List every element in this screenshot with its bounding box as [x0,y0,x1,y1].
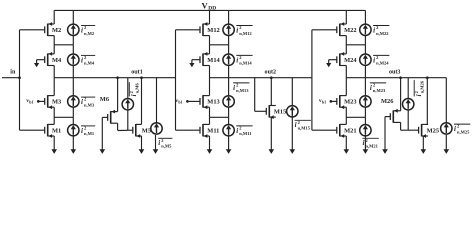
ground at M26 gate [382,117,390,154]
ground under i2n,M11 chain [226,135,232,154]
svg-text:i: i [81,56,83,64]
wire: M23 source to node B3 [345,107,347,117]
svg-text:i: i [295,121,297,129]
svg-text:i: i [233,84,235,92]
ground at M11 source [207,136,213,154]
noise source i2n,M14 [223,45,234,78]
transistor M2 (PMOS) [45,22,62,36]
svg-text:out3: out3 [389,70,401,76]
svg-text:i: i [373,26,375,34]
wire: M6 source to M5 gate [118,123,133,130]
svg-text:M1: M1 [52,128,61,135]
noise source i2n,M1 [68,117,79,136]
label i2n,M15 [295,120,311,131]
node B1 tie line [54,116,73,118]
wire: out1 to M6 drain [116,76,119,111]
label i2n,M6 (rotated) [129,82,140,96]
svg-text:i: i [370,84,372,92]
node B2 tie line [210,116,229,118]
label i2n,M12 [236,25,252,36]
noise source i2n,M24 [360,45,371,78]
wire: stage1 input rail (gates of M2 and M1) [20,30,45,130]
transistor M1 (NMOS) [45,124,62,138]
svg-text:M25: M25 [427,128,439,135]
label i2n,M11 [236,126,252,137]
wire: M24 drain to out3 [345,66,347,96]
svg-text:n,M21: n,M21 [366,144,379,149]
transistor M22 (PMOS) [337,22,357,36]
label M6 [100,96,110,103]
label i2n,M25 [454,124,470,135]
label i2n,M3 [81,97,95,108]
transistor M23 (NMOS cascode) [337,95,357,109]
svg-text:n,M22: n,M22 [376,31,389,36]
svg-text:M3: M3 [52,99,61,106]
transistor M12 (PMOS) [200,22,220,36]
ground under i2n,M5 chain [153,135,159,154]
svg-text:i: i [363,139,365,147]
transistor M26 [390,109,400,123]
svg-text:i: i [81,127,83,135]
label i2n,M5 [158,138,172,149]
svg-text:M14: M14 [207,57,220,64]
svg-text:i: i [236,26,238,34]
noise source i2n,M25 [441,78,452,134]
ground at M21 source [344,136,350,154]
wire: node B3 to M21 drain [345,117,347,124]
transistor M21 (NMOS) [337,124,357,138]
node out3: wire and label [346,70,446,78]
svg-text:i: i [373,56,375,64]
noise source i2n,M2 [68,10,79,44]
svg-text:n,M24: n,M24 [376,61,389,66]
svg-text:n,M23: n,M23 [373,88,386,93]
noise source i2n,M22 [360,10,371,44]
node A2 tie line [210,44,229,46]
net label VDD [202,0,217,11]
svg-text:i: i [81,98,83,106]
svg-text:n,M2: n,M2 [84,31,95,36]
bias vb1 at M3 gate [26,98,44,104]
bias vb1 at M23 gate [319,98,337,104]
ground under i2n,M1 chain [71,135,77,154]
wire: M12 drain to node A2 [209,36,211,54]
noise source i2n,M11 [223,117,234,136]
svg-text:n,M26: n,M26 [420,80,425,93]
transistor M24 (PMOS cascode) [337,52,358,66]
noise source i2n,M13 [223,78,234,118]
svg-text:out2: out2 [265,70,277,76]
wire: VDD to M22 source [345,10,347,24]
svg-text:n,M11: n,M11 [239,131,252,136]
noise source i2n,M12 [223,10,234,44]
wire: stage3 input rail (gates of M22 and M21) [312,30,337,130]
label M26 [381,98,394,105]
svg-text:M5: M5 [142,128,151,135]
ground at M5 source [139,136,145,154]
ground under i2n,M15 chain [290,116,296,154]
wire: M2 drain to node A1 [53,36,55,54]
noise source i2n,M15 [287,78,298,117]
svg-text:M26: M26 [381,98,394,105]
ground under i2n,M21 chain [363,135,369,154]
svg-text:M6: M6 [100,96,110,103]
node out2: wire and label [210,70,312,78]
svg-text:n,M3: n,M3 [84,102,95,107]
bias arrow at M24 gate [326,60,337,68]
wire: node B2 to M11 drain [209,117,211,124]
noise source i2n,M26 [403,78,414,131]
wire: out3 to M26 drain [399,76,402,110]
label i2n,M1 [81,126,95,137]
label i2n,M24 [373,55,389,66]
noise source i2n,M6 [122,78,133,131]
svg-text:in: in [10,70,16,76]
svg-text:M12: M12 [207,27,219,34]
node A1 tie line [54,44,73,46]
svg-text:M4: M4 [52,57,62,64]
wire: stage2 input rail (gates of M12 and M11) [176,30,201,130]
ground at M25 source [421,136,427,154]
label i2n,M26 (rotated) [414,80,425,96]
wire: node B1 to M1 drain [53,117,55,124]
wire: M26 source to M25 gate [401,122,419,130]
svg-text:M2: M2 [52,27,61,34]
svg-text:i: i [454,125,456,133]
svg-text:out1: out1 [131,70,143,76]
wire: M14 drain to out2 [209,66,211,96]
wire: M4 drain to out1 [53,66,55,96]
svg-text:i: i [81,26,83,34]
wire: M3 source to node B1 [53,107,55,117]
wire: M22 drain to node A3 [345,36,347,54]
transistor M4 (PMOS cascode) [45,52,62,66]
bias arrow at M4 gate [34,60,45,68]
svg-text:n,M14: n,M14 [239,61,252,66]
svg-text:i: i [236,127,238,135]
svg-text:n,M12: n,M12 [239,31,252,36]
svg-text:i: i [158,139,160,147]
svg-text:n,M13: n,M13 [236,88,249,93]
transistor M13 (NMOS cascode) [200,95,220,109]
svg-text:b1: b1 [178,99,182,104]
power rail VDD [54,9,365,11]
node B3 tie line [346,116,365,118]
svg-text:b1: b1 [322,99,326,104]
svg-text:M15: M15 [274,109,286,116]
noise source i2n,M21 [360,117,371,136]
label i2n,M14 [236,55,252,66]
node A3 tie line [346,44,365,46]
svg-text:n,M6: n,M6 [135,83,140,94]
label i2n,M21 [363,138,379,149]
transistor M6 [108,110,118,124]
transistor M3 (NMOS cascode) [45,95,62,109]
noise source i2n,M4 [68,45,79,78]
svg-text:M11: M11 [207,128,219,135]
label i2n,M2 [81,25,95,36]
ground at M1 source [51,136,57,154]
transistor M5 [133,124,151,138]
wire: out2 to M15 gate [255,78,267,112]
ground at M6 gate [100,117,108,153]
label i2n,M22 [373,25,389,36]
node in: label, wire and junction [2,70,21,80]
label i2n,M4 [81,55,95,66]
svg-text:n,M4: n,M4 [84,61,95,66]
wire: out1 to M5 drain [140,76,143,124]
wire: out2 to M15 drain [270,76,273,105]
transistor M14 (PMOS cascode) [200,52,221,66]
wire: out3 to M25 drain [426,76,429,124]
bias vb1 at M13 gate [175,98,200,104]
transistor M15 [266,105,286,119]
svg-text:n,M1: n,M1 [84,131,95,136]
transistor M25 [419,124,439,138]
svg-text:M23: M23 [344,99,356,106]
svg-text:M21: M21 [344,128,356,135]
svg-text:M24: M24 [344,57,357,64]
svg-text:i: i [236,56,238,64]
wire: VDD to M12 source [209,10,211,24]
transistor M11 (NMOS) [200,124,219,138]
bias arrow at M14 gate [189,60,200,68]
ground under i2n,M25 chain [444,135,450,154]
svg-text:M22: M22 [344,27,356,34]
svg-text:i: i [130,94,138,96]
noise source i2n,M5 [151,78,162,134]
svg-text:n,M5: n,M5 [161,144,172,149]
svg-text:n,M25: n,M25 [457,129,470,134]
label i2n,M13 [233,83,249,94]
svg-text:b1: b1 [29,99,33,104]
svg-text:n,M15: n,M15 [298,126,311,131]
svg-text:i: i [415,94,423,96]
wire: M13 source to node B2 [209,107,211,117]
wire: VDD to M2 source [53,10,55,24]
ground at M15 source [269,117,275,154]
noise source i2n,M3 [68,78,79,118]
node out1: wire and label [54,70,175,78]
svg-text:M13: M13 [207,99,219,106]
noise source i2n,M23 [360,78,371,118]
label i2n,M23 [370,83,386,94]
